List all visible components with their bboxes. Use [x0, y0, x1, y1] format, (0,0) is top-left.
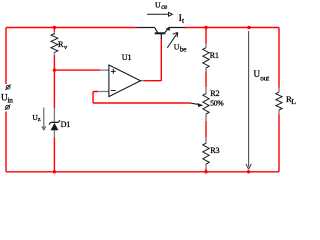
svg-text:out: out [260, 75, 269, 83]
svg-text:R2: R2 [210, 89, 219, 98]
svg-text:D1: D1 [61, 120, 71, 129]
svg-text:z: z [38, 116, 41, 123]
svg-text:U: U [155, 1, 161, 10]
svg-text:t: t [182, 17, 184, 25]
svg-text:50%: 50% [210, 98, 224, 107]
svg-text:be: be [180, 45, 186, 53]
svg-text:in: in [8, 96, 14, 104]
svg-text:ce: ce [161, 3, 167, 11]
svg-text:R1: R1 [210, 51, 219, 60]
svg-text:U: U [174, 43, 180, 52]
svg-text:U1: U1 [122, 53, 132, 62]
svg-text:R3: R3 [210, 146, 219, 155]
svg-text:L: L [291, 97, 296, 106]
